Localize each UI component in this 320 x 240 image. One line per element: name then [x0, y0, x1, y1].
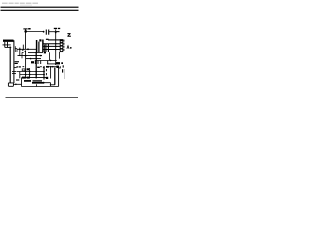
inner box right edge	[54, 68, 56, 85]
vertical x50.6	[50, 67, 52, 79]
IC U1 pin fill top	[60, 40, 63, 42]
crystal X1 plate left	[36, 40, 38, 52]
glyph lambda	[67, 46, 69, 49]
bottom bar y77.5	[22, 77, 49, 79]
dash mark x63	[62, 65, 64, 67]
bottom bar y80.8 segment a	[24, 80, 31, 82]
transformer core tick upper	[3, 44, 11, 46]
connector J1 box bottom-left	[8, 83, 13, 86]
wire: transformer right lead	[13, 40, 15, 83]
node dot Y	[43, 82, 45, 84]
tick mark q	[40, 66, 42, 67]
wire y82.6 to corner	[44, 83, 51, 86]
node dot G	[19, 49, 21, 51]
ladder top bar	[48, 39, 60, 41]
node dot W	[52, 66, 54, 68]
label near ladder top	[46, 39, 49, 40]
label text y62 right	[61, 62, 63, 64]
bus horizontal mid	[18, 55, 43, 57]
wire: cap to bus	[49, 31, 60, 33]
transistor Q1 stub	[56, 31, 60, 33]
transformer core tick lower	[5, 46, 11, 48]
label lower-left text	[15, 61, 19, 62]
header journal micro-text	[2, 3, 38, 6]
faint wire x64.6	[64, 69, 66, 79]
vertical bus x36	[35, 52, 37, 78]
wire hook x23.3	[22, 45, 23, 51]
label text c6	[58, 28, 60, 29]
IC U1 internal rung 1	[60, 42, 63, 44]
label tiny 2	[23, 65, 25, 68]
wire: vertical from diode node	[19, 48, 21, 56]
wire: vertical drop from power rail	[25, 29, 27, 49]
node dot X	[15, 84, 17, 86]
IC U1 internal rung 3	[60, 48, 63, 50]
node dot F	[55, 49, 57, 51]
wire: vertical x49.6	[49, 52, 51, 60]
node dot N	[25, 71, 27, 73]
blob above grid	[27, 68, 29, 70]
node dot S	[29, 74, 31, 76]
junction box small	[22, 69, 25, 71]
ground tooth 1	[34, 61, 36, 65]
IC right dashed edge	[63, 40, 65, 52]
vertical bus right-center	[55, 30, 57, 66]
ladder rung y43.7	[43, 43, 60, 45]
vertical bus center-left	[25, 50, 27, 78]
left ticks of block	[45, 69, 47, 75]
component box row a	[22, 77, 26, 79]
label text small	[37, 67, 40, 68]
bottom bar y80.8 segment b	[33, 80, 43, 82]
node dot H	[27, 48, 29, 50]
ground tooth 3	[40, 61, 42, 65]
ground tooth 4	[47, 61, 49, 65]
node dot D	[55, 43, 57, 45]
transistor arrow tick	[43, 66, 45, 69]
node dot B	[43, 31, 45, 33]
capacitor C1 plate left	[45, 30, 47, 35]
transformer winding prong 1	[4, 42, 6, 48]
transformer winding prong 2	[7, 42, 9, 48]
blob top text label C2	[28, 28, 30, 30]
node dot O	[29, 71, 31, 73]
glyph 2 mark	[67, 33, 70, 34]
capacitor C3 lead	[45, 44, 47, 52]
diode D1 glyph	[15, 46, 17, 52]
capacitor C4 lead	[47, 44, 49, 52]
node dot Q	[43, 71, 45, 73]
IC U1 internal rung 2	[60, 45, 63, 47]
dark square end of bar	[56, 66, 59, 68]
bottom thick bar y82.7	[32, 82, 44, 84]
node dot T	[35, 74, 37, 76]
top bar y66.6 right block	[46, 66, 58, 68]
capacitor C5 lead	[44, 45, 46, 53]
dot right	[70, 47, 72, 49]
left stub bar bottom	[16, 79, 19, 81]
outer box right edge	[58, 68, 60, 87]
node dot J	[30, 58, 32, 60]
node dot A	[24, 30, 27, 33]
blob end y52.6	[44, 52, 46, 54]
junction dots	[15, 28, 72, 85]
wire: mid-left horizontal	[17, 48, 36, 50]
transformer T1 core slab	[3, 40, 14, 42]
node dot E	[55, 46, 57, 48]
capacitor C1 plate right	[48, 30, 50, 35]
grid vertical x19.8	[19, 72, 21, 79]
wire: secondary bottom tick	[14, 67, 17, 69]
ground comb bar	[35, 60, 57, 62]
ground tooth 2	[37, 61, 39, 65]
wire: horizontal y52.6	[28, 52, 43, 54]
ladder rung y46.3	[43, 45, 60, 47]
footer rule	[6, 96, 79, 99]
lower grid horizontal y74.4	[20, 74, 45, 76]
resistor R2 bar	[42, 40, 44, 53]
power rail symbol top	[23, 28, 27, 30]
ladder rung y49.5	[43, 49, 60, 51]
outer box left edge	[21, 78, 23, 87]
node dot H2	[25, 51, 26, 52]
bus crossing dots	[36, 52, 37, 53]
IC U1 box	[60, 40, 63, 52]
crystal X1 plate right	[38, 42, 40, 52]
capacitor C7 dash	[62, 69, 64, 72]
grid vertical x44	[43, 66, 45, 80]
connector blob top	[39, 39, 41, 41]
wire: top horizontal feed	[26, 31, 45, 33]
inner box bottom edge	[50, 84, 55, 86]
label text c5	[54, 28, 57, 29]
header double rule (top)	[1, 7, 79, 8]
header double rule (bottom)	[1, 10, 79, 11]
component body on top bar	[46, 66, 49, 68]
lower grid horizontal y71.4	[17, 71, 45, 73]
node dot R	[25, 74, 27, 76]
node dot P	[35, 71, 37, 73]
node blob M	[56, 62, 60, 64]
node dot L	[50, 60, 52, 62]
node dot C	[55, 32, 57, 34]
wire: lower horizontal y63.8	[47, 63, 60, 65]
thick bar end blob	[46, 77, 48, 79]
wire: box to bottom bus	[13, 83, 21, 85]
component box row b	[27, 77, 30, 79]
node dot U	[43, 74, 45, 76]
glyph 2 diagonal	[68, 34, 70, 36]
blob component Z	[31, 61, 34, 63]
tick on bottom edge	[35, 84, 37, 86]
wire: stub top hook	[22, 52, 24, 58]
label grid top text	[16, 66, 18, 67]
IC bottom pin stub	[59, 52, 61, 59]
link ticks between leads	[12, 71, 16, 73]
outer box bottom edge	[22, 86, 59, 88]
node dot V	[50, 66, 52, 68]
grid vertical x29.6	[29, 68, 31, 78]
node dot I	[25, 55, 27, 57]
wire: branch y58.6	[26, 58, 41, 60]
node dot K	[40, 55, 42, 57]
wire: long left vertical to bottom box	[9, 47, 11, 84]
corner hook x60	[59, 66, 61, 68]
